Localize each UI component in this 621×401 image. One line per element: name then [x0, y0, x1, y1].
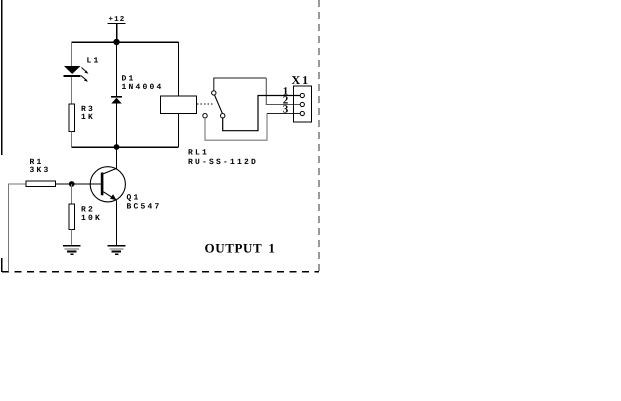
svg-text:L1: L1 [87, 57, 101, 66]
relay coil RL1 [161, 96, 197, 114]
relay mechanical link (dotted) [197, 103, 214, 105]
connector X1 pin 1 circle [300, 93, 304, 97]
svg-text:1N4004: 1N4004 [122, 83, 164, 92]
resistor R3 [69, 104, 75, 132]
LED L1 [64, 66, 89, 82]
wire relay coil to bottom rail [178, 114, 180, 148]
diode D1 [111, 96, 122, 104]
wire to pin 3 [267, 113, 300, 115]
label R1 3K3 [30, 158, 51, 175]
svg-text:RL1: RL1 [188, 149, 209, 158]
relay common contact [212, 91, 216, 95]
svg-text:OUTPUT 1: OUTPUT 1 [205, 241, 276, 256]
wire rail to relay coil [178, 42, 180, 96]
enclosure right border (dashed) [318, 0, 320, 272]
wire top rail down to pin 2 [266, 78, 300, 105]
input wire to R1 [9, 184, 27, 272]
junction bottom rail / collector [114, 144, 120, 150]
ground under R2 [63, 246, 81, 255]
resistor R1 [26, 181, 56, 187]
wire rail to LED anode [71, 42, 73, 66]
wire R2 to ground [71, 229, 73, 245]
svg-text:10K: 10K [81, 214, 102, 223]
wire LED cathode to R3 [71, 77, 73, 104]
svg-text:X1: X1 [292, 73, 311, 87]
resistor R2 [69, 204, 75, 229]
label R3 1K [81, 105, 95, 122]
junction base / R2 [69, 181, 75, 187]
wire junction to R2 [71, 184, 73, 204]
relay NC contact [203, 114, 207, 118]
wire NC contact down and right [205, 114, 267, 141]
svg-text:1K: 1K [81, 113, 95, 122]
connector X1 pin 3 circle [300, 111, 304, 115]
relay NO contact [221, 114, 225, 118]
transistor Q1 [90, 167, 125, 202]
net +12 label [108, 15, 126, 24]
svg-text:3: 3 [283, 104, 289, 116]
ground under Q1 emitter [108, 246, 126, 255]
junction top rail / D1 [113, 39, 119, 45]
connector X1 box [294, 86, 312, 122]
enclosure bottom border (dashed) [2, 271, 319, 273]
wire common contact up to top rail [214, 78, 266, 91]
wire bottom rail [72, 146, 179, 148]
wire top +12 rail [72, 41, 179, 43]
wire +12 stub [116, 24, 118, 42]
wire emitter to ground [116, 201, 118, 246]
wire NO contact to pin 1 [223, 96, 301, 131]
svg-text:BC547: BC547 [127, 203, 162, 212]
relay switch lever [215, 95, 223, 113]
label RL1 RU-SS-112D [188, 149, 258, 167]
svg-text:Q1: Q1 [127, 194, 141, 203]
label D1 1N4004 [122, 75, 164, 93]
connector X1 pin 2 circle [300, 102, 304, 106]
svg-text:+12: +12 [109, 15, 126, 24]
svg-text:3K3: 3K3 [30, 166, 51, 175]
wire rail to D1 cathode [116, 42, 118, 96]
svg-text:RU-SS-112D: RU-SS-112D [188, 158, 258, 167]
enclosure left border [1, 0, 3, 272]
wire R1 to base junction [56, 183, 101, 185]
wire D1 anode to bottom rail [116, 104, 118, 148]
wire collector [116, 147, 118, 169]
label R2 10K [81, 206, 102, 223]
wire R3 to bottom rail [71, 132, 73, 148]
label Q1 BC547 [127, 194, 162, 212]
